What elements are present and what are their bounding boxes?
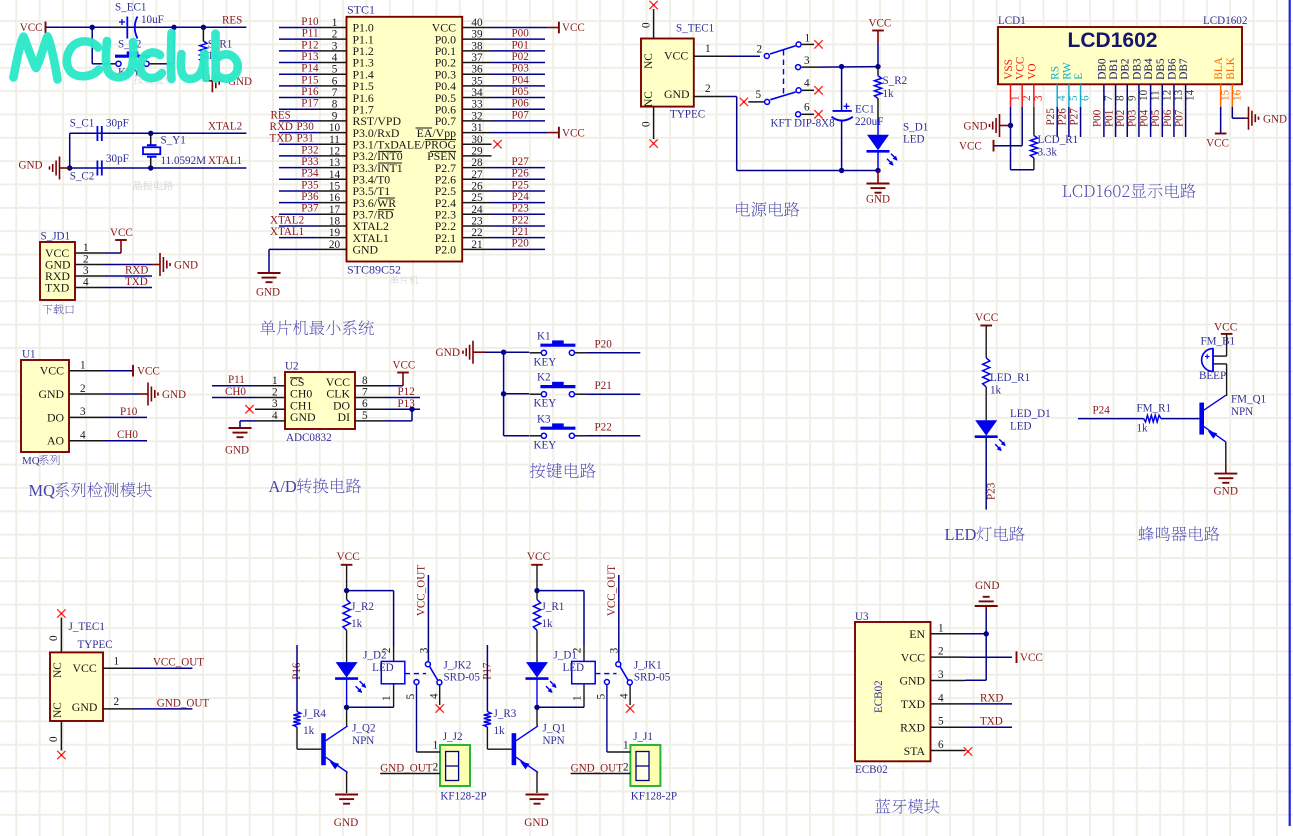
svg-text:VCC: VCC	[901, 650, 925, 664]
module U1 pin names	[38, 364, 64, 448]
IC U-STC1 pin 26 P2.5	[435, 180, 492, 198]
IC U-STC1 pin 14 P3.4/T0	[317, 169, 390, 187]
svg-text:15: 15	[1220, 89, 1232, 101]
wire+power VCC (mcu pin40)	[492, 22, 585, 35]
svg-text:VCC: VCC	[393, 360, 416, 372]
IC U-STC1 pin 6 P1.5	[317, 75, 374, 93]
svg-text:4: 4	[804, 78, 810, 90]
wire+net label P12	[279, 39, 319, 51]
IC U-STC1 pin 25 P2.4	[435, 192, 492, 210]
svg-text:P16: P16	[301, 86, 319, 98]
svg-text:J_D2: J_D2	[363, 650, 386, 662]
no-connect X (S_S1 pin5)	[740, 98, 748, 106]
relay switch J_JK2 SRD-05	[405, 565, 481, 752]
IC U-STC1 pin 32 P0.7	[435, 110, 492, 128]
svg-text:P04: P04	[512, 74, 530, 86]
svg-text:2: 2	[705, 83, 711, 95]
svg-text:12: 12	[329, 145, 340, 157]
section title LCD1602显示电路	[1062, 183, 1195, 198]
IC U3 pin 5 RXD	[900, 716, 965, 735]
svg-text:P30: P30	[297, 121, 315, 133]
wire S_TEC1 top stub + pin 0	[641, 9, 654, 39]
IC LCD1 pin 16 BLK	[1225, 56, 1244, 106]
wire+net label P14	[279, 63, 319, 75]
wire crystal left bus	[69, 133, 71, 168]
wire+net label P04 (mcu right)	[492, 74, 546, 86]
svg-text:29: 29	[471, 145, 483, 157]
svg-text:5: 5	[405, 693, 417, 699]
wire keys common bus	[485, 350, 529, 436]
svg-text:13: 13	[329, 157, 341, 169]
svg-text:FM_Q1: FM_Q1	[1231, 394, 1266, 406]
wire+net label P01 (lcd)	[1103, 107, 1115, 137]
wire J_TEC1 bottom stub + pin 0	[48, 721, 61, 751]
LED S_D1	[867, 120, 929, 170]
wire+power VCC (U1 pin1)	[105, 365, 160, 378]
wire+net label CH0 (U1 pin4)	[105, 429, 148, 441]
svg-text:TYPEC: TYPEC	[78, 639, 113, 651]
resistor J_R4 1k (base)	[291, 645, 326, 749]
capacitor S_C2 30pF	[70, 153, 129, 183]
svg-text:LED: LED	[563, 662, 585, 674]
wire S_TEC1 bottom stub + pin 0	[641, 107, 654, 139]
svg-text:LED: LED	[903, 134, 925, 146]
svg-text:25: 25	[471, 192, 483, 204]
net label XTAL1	[208, 155, 242, 167]
svg-text:P37: P37	[301, 203, 319, 215]
svg-text:K1: K1	[537, 330, 551, 342]
svg-text:P05: P05	[1150, 109, 1162, 127]
svg-text:GND: GND	[38, 387, 64, 401]
connector S_JD1 pin 2 GND	[45, 254, 105, 272]
svg-text:1k: 1k	[303, 725, 315, 737]
IC U2 pin 5 line (right)	[355, 410, 385, 422]
IC LCD1 pin 1 VSS	[1003, 59, 1022, 107]
svg-text:4: 4	[272, 410, 278, 422]
svg-text:P25: P25	[512, 179, 530, 191]
svg-text:ECB02: ECB02	[855, 764, 888, 776]
connector J_TEC1 pin names	[52, 661, 98, 718]
IC U-STC1 pin 27 P2.6	[435, 169, 492, 187]
svg-text:11: 11	[329, 134, 340, 146]
svg-text:NC: NC	[643, 91, 655, 107]
push button S_S2 KEY (reset)	[104, 39, 161, 79]
IC LCD1 pin 8 DB1	[1108, 58, 1127, 106]
svg-text:P17: P17	[301, 98, 319, 110]
section title MQ系列检测模块	[29, 481, 152, 500]
svg-text:4: 4	[80, 430, 86, 442]
svg-text:DO: DO	[47, 410, 65, 424]
svg-text:GND: GND	[72, 700, 98, 714]
svg-text:STA: STA	[904, 744, 926, 758]
svg-text:3: 3	[332, 40, 338, 52]
wire+net label P22 (K3)	[586, 422, 640, 436]
svg-text:1k: 1k	[990, 385, 1002, 397]
svg-text:GND: GND	[664, 87, 690, 101]
svg-text:9: 9	[332, 110, 338, 122]
IC LCD1 pin 5 RW	[1061, 62, 1080, 107]
wire+power VCC (S_JD1 pin1)	[105, 227, 133, 253]
LED J_D1 labels	[554, 650, 585, 675]
IC LCD1 title LCD1602	[1068, 29, 1158, 52]
connector J_TEC1 body	[50, 652, 103, 721]
svg-text:0: 0	[641, 121, 653, 127]
designator FM_B1	[1201, 336, 1236, 348]
svg-text:P20: P20	[595, 339, 613, 351]
svg-text:NC: NC	[52, 662, 64, 678]
svg-text:LED: LED	[1010, 421, 1032, 433]
LED LED_D1	[975, 387, 1051, 451]
svg-text:GND: GND	[436, 347, 460, 359]
svg-text:2: 2	[114, 696, 120, 708]
IC U-STC1 pin 40 VCC	[432, 17, 492, 35]
svg-text:XTAL2: XTAL2	[208, 121, 242, 133]
svg-text:21: 21	[471, 239, 482, 251]
wire reset button branch	[92, 27, 174, 64]
resistor LED_R1 1k	[983, 358, 1030, 397]
ground GND (bluetooth, inverted)	[975, 580, 1000, 610]
no-connect X (S_S1 pin4)	[814, 86, 822, 94]
svg-text:0: 0	[48, 635, 60, 641]
wire+net label P03 (lcd)	[1127, 107, 1139, 137]
text 按键复位 (gray)	[134, 75, 175, 85]
wire+net label P05 (mcu right)	[492, 86, 546, 98]
svg-text:4: 4	[332, 52, 338, 64]
svg-text:8: 8	[332, 99, 338, 111]
svg-text:VCC_OUT: VCC_OUT	[153, 657, 204, 669]
svg-text:J_JK2: J_JK2	[444, 660, 472, 672]
svg-text:KF128-2P: KF128-2P	[440, 791, 486, 803]
wire bluetooth EN/GND net	[966, 610, 989, 680]
svg-text:P15: P15	[301, 74, 319, 86]
svg-text:GND: GND	[162, 389, 186, 401]
wire+net label P23 (led)	[985, 437, 997, 509]
svg-text:P03: P03	[1127, 109, 1139, 127]
svg-text:1: 1	[114, 656, 120, 668]
svg-text:S_C2: S_C2	[70, 171, 95, 183]
logo MCUclub (teal)	[14, 33, 238, 80]
svg-text:P24: P24	[512, 191, 530, 203]
svg-text:2: 2	[332, 29, 338, 41]
wire+ground GND (U2 pin4)	[225, 421, 255, 457]
connector S_JD1 pin 3 RXD	[45, 265, 105, 283]
svg-text:35: 35	[471, 75, 483, 87]
IC U2 pin 4 line (left)	[255, 410, 285, 422]
svg-text:GND_OUT: GND_OUT	[157, 697, 210, 709]
svg-text:10: 10	[329, 122, 341, 134]
svg-text:VCC_OUT: VCC_OUT	[416, 565, 428, 616]
svg-text:5: 5	[332, 64, 338, 76]
svg-text:1: 1	[623, 740, 629, 752]
wire+net label P12 (U2 pin7)	[385, 386, 420, 398]
net label RES	[222, 15, 242, 27]
push button K3 KEY	[529, 413, 586, 451]
wire+net label P22 (mcu right)	[492, 214, 546, 226]
svg-text:5: 5	[1068, 95, 1080, 101]
svg-text:MQ: MQ	[29, 481, 56, 500]
svg-text:RES: RES	[222, 15, 242, 27]
wire+net label P06 (mcu right)	[492, 98, 546, 110]
resistor J_R3 1k (base)	[481, 645, 516, 749]
svg-text:KEY: KEY	[534, 439, 557, 451]
svg-text:DB3: DB3	[1131, 58, 1143, 80]
svg-text:8: 8	[362, 375, 368, 387]
svg-text:3: 3	[272, 398, 278, 410]
svg-text:TXD: TXD	[125, 276, 148, 288]
svg-text:P36: P36	[301, 191, 319, 203]
svg-text:P24: P24	[1093, 405, 1111, 417]
svg-text:RXD: RXD	[980, 692, 1003, 704]
svg-text:1: 1	[571, 695, 583, 701]
IC U3 pin 1 EN	[909, 622, 965, 641]
IC U-STC1 body STC89C52	[347, 17, 463, 262]
svg-text:P20: P20	[512, 238, 530, 250]
svg-text:BLK: BLK	[1225, 56, 1237, 79]
svg-text:14: 14	[329, 169, 341, 181]
svg-text:KEY: KEY	[534, 398, 557, 410]
wire S_S1 pin3 to VCC node	[819, 64, 880, 69]
wire+net label GND_OUT (J_TEC1 pin2)	[103, 696, 209, 709]
svg-text:LCD_R1: LCD_R1	[1038, 134, 1079, 146]
wire relay 1 cathode node	[534, 679, 584, 710]
LED J_D1	[526, 662, 557, 693]
IC U-STC1 pin 33 P0.6	[435, 99, 492, 117]
svg-text:P06: P06	[1162, 109, 1174, 127]
wire+net label P06 (lcd)	[1162, 107, 1174, 137]
IC U-STC1 pin 19 XTAL1	[317, 227, 389, 245]
IC LCD1 pin 11 DB4	[1143, 58, 1162, 107]
svg-text:S_D1: S_D1	[903, 122, 928, 134]
wire+net label P21 (K2)	[586, 380, 640, 394]
svg-text:1: 1	[272, 375, 278, 387]
svg-text:20: 20	[329, 239, 341, 251]
power port VCC (relay 1)	[527, 551, 550, 591]
svg-text:40: 40	[471, 17, 483, 29]
wire+net label RXD (S_JD1 pin3)	[105, 265, 153, 277]
transistor J_Q2 NPN	[321, 707, 375, 793]
IC U-STC1 pin 9 RST/VPD	[317, 110, 401, 128]
net label P24 (buzzer)	[1093, 405, 1111, 417]
IC U-STC1 pin 4 P1.3	[317, 52, 374, 70]
svg-text:P23: P23	[512, 203, 530, 215]
svg-text:4: 4	[1056, 95, 1068, 101]
section title 蜂鸣器电路	[1139, 526, 1220, 541]
svg-text:VCC: VCC	[1206, 138, 1229, 150]
IC U2 pin 6 line (right)	[355, 398, 385, 410]
svg-text:P02: P02	[512, 51, 529, 63]
svg-text:K2: K2	[537, 372, 551, 384]
IC U-STC1 pin 12 P3.2/INT0	[317, 145, 403, 163]
svg-text:P23: P23	[985, 482, 997, 500]
wire+net label P07 (mcu right)	[492, 109, 546, 121]
transistor FM_Q1 NPN	[1199, 394, 1266, 442]
module U1 pin 1 line	[69, 360, 105, 372]
svg-text:RXD: RXD	[125, 265, 148, 277]
relay coil J_JK2 pins 2/1	[381, 648, 405, 708]
svg-text:5: 5	[756, 89, 762, 101]
designator J_TEC1	[69, 621, 105, 633]
IC U3 pin 3 GND	[899, 669, 965, 688]
wire+net label TXD (S_JD1 pin4)	[105, 276, 153, 288]
IC U2 pin 2 line (left)	[255, 387, 285, 399]
svg-text:VCC: VCC	[959, 141, 982, 153]
svg-text:LED_R1: LED_R1	[990, 372, 1030, 384]
IC U-STC1 pin 10 P3.0/RxD	[317, 122, 400, 140]
svg-text:27: 27	[471, 169, 483, 181]
wire+net label P23 (mcu right)	[492, 203, 546, 215]
designator U1	[22, 349, 36, 361]
svg-text:XTAL1: XTAL1	[208, 155, 242, 167]
ground GND (crystal)	[18, 157, 69, 180]
wire relay 1 VCC node	[534, 588, 584, 662]
svg-text:P05: P05	[512, 86, 530, 98]
wire relay 2 cathode node	[344, 679, 394, 710]
svg-text:39: 39	[471, 29, 483, 41]
svg-text:DB5: DB5	[1155, 58, 1167, 80]
transistor J_Q1 NPN	[512, 707, 566, 793]
svg-text:DB4: DB4	[1143, 58, 1155, 80]
svg-text:RS: RS	[1050, 66, 1062, 80]
wire+net label RXD P30	[270, 121, 318, 133]
wire+net label P26 (mcu right)	[492, 168, 546, 180]
svg-text:DB1: DB1	[1108, 58, 1120, 79]
svg-text:P01: P01	[512, 39, 529, 51]
wire+net label P00 (lcd)	[1092, 107, 1104, 137]
svg-text:VSS: VSS	[1003, 59, 1015, 80]
designator U3	[855, 611, 869, 623]
wire+net label P27 (mcu right)	[492, 156, 546, 168]
connector S_TEC1 body TYPEC	[641, 39, 694, 107]
svg-text:2: 2	[757, 44, 763, 56]
svg-text:P27: P27	[512, 156, 530, 168]
relay switch J_JK1 SRD-05	[595, 565, 671, 752]
wire+net label P21 (mcu right)	[492, 226, 546, 238]
svg-text:P12: P12	[301, 39, 318, 51]
svg-text:GND: GND	[866, 194, 890, 206]
svg-text:J_Q1: J_Q1	[543, 723, 566, 735]
svg-text:SRD-05: SRD-05	[634, 672, 671, 684]
svg-text:30pF: 30pF	[106, 118, 129, 130]
svg-text:P35: P35	[301, 179, 319, 191]
svg-text:NPN: NPN	[1231, 406, 1253, 418]
wire+net label RXD (U3 pin4)	[966, 692, 1013, 704]
wire GND (mcu pin20)	[269, 249, 317, 273]
svg-text:2: 2	[1021, 95, 1033, 101]
svg-text:RES: RES	[271, 109, 291, 121]
wire+net label P11	[279, 28, 319, 40]
svg-text:1: 1	[433, 740, 439, 752]
svg-text:P27: P27	[1068, 108, 1080, 126]
svg-text:SRD-05: SRD-05	[444, 672, 481, 684]
svg-text:FM_R1: FM_R1	[1137, 403, 1172, 415]
svg-text:1k: 1k	[351, 618, 363, 630]
svg-text:P26: P26	[512, 168, 530, 180]
part label LCD1602 (top right)	[1203, 15, 1247, 27]
svg-text:RW: RW	[1061, 62, 1073, 80]
IC U-STC1 pin 38 P0.1	[435, 40, 492, 58]
svg-text:P34: P34	[301, 168, 319, 180]
IC U-STC1 pin 8 P1.7	[317, 99, 374, 117]
svg-text:P10: P10	[301, 16, 319, 28]
IC U-STC1 pin 30 ALE/PROG	[398, 134, 491, 152]
svg-text:P21: P21	[512, 226, 529, 238]
wire lcd pin1 VSS to GND node	[1008, 107, 1013, 170]
svg-text:P07: P07	[1173, 109, 1185, 127]
svg-text:P00: P00	[512, 28, 530, 40]
wire+net label P37	[279, 203, 319, 215]
no-connect X (U2 pin3)	[245, 405, 253, 413]
section title A/D转换电路	[269, 477, 362, 496]
IC LCD1 pin 7 DB0	[1096, 58, 1115, 107]
power port VCC (reset)	[20, 22, 46, 35]
svg-text:MQ: MQ	[22, 455, 40, 467]
power port VCC (power circuit)	[869, 18, 892, 67]
wire+net label P05 (lcd)	[1150, 107, 1162, 137]
svg-text:4: 4	[619, 693, 631, 699]
svg-text:16: 16	[1231, 89, 1243, 101]
svg-text:STC89C52: STC89C52	[347, 263, 401, 277]
svg-text:DB0: DB0	[1096, 58, 1108, 80]
IC U-STC1 pin 13 P3.3/INT1	[317, 157, 403, 175]
wire+net label P00 (mcu right)	[492, 28, 546, 40]
svg-text:DB6: DB6	[1166, 58, 1178, 80]
svg-text:XTAL2: XTAL2	[270, 214, 304, 226]
crystal S_Y1 11.0592M	[143, 133, 206, 168]
svg-text:TXD: TXD	[270, 133, 293, 145]
terminal block J_J2 KF128-2P	[380, 731, 486, 803]
module U1 pin 2 line	[69, 383, 105, 395]
LED J_D2	[335, 662, 366, 693]
IC U-STC1 pin 29 PSEN	[427, 145, 491, 163]
svg-text:26: 26	[471, 180, 483, 192]
svg-text:ADC0832: ADC0832	[286, 432, 332, 444]
svg-text:8: 8	[1115, 95, 1127, 101]
svg-text:1k: 1k	[883, 88, 895, 100]
svg-text:P01: P01	[1103, 110, 1115, 127]
svg-text:P00: P00	[1092, 109, 1104, 127]
push button K1 KEY	[529, 330, 586, 368]
svg-text:J_R2: J_R2	[351, 601, 374, 613]
connector S_JD1 pin 4 TXD	[45, 277, 105, 295]
svg-text:VCC: VCC	[1214, 322, 1237, 334]
svg-text:1: 1	[805, 33, 811, 45]
wire+net label P26 (lcd)	[1057, 107, 1069, 137]
wire reset net RES (top-left horizontal)	[46, 25, 247, 30]
wire+net label P24 (mcu right)	[492, 191, 546, 203]
IC U2 pin 3 line (left)	[255, 398, 285, 410]
svg-text:VCC: VCC	[337, 551, 360, 563]
no-connect X (U3 pin6 STA)	[964, 747, 972, 755]
svg-text:P2.0: P2.0	[435, 243, 456, 257]
svg-text:S_Y1: S_Y1	[161, 135, 186, 147]
wire+net label P20 (K1)	[586, 339, 640, 353]
wire+net label TXD P31	[270, 133, 318, 145]
svg-text:14: 14	[1185, 89, 1197, 101]
svg-text:1k: 1k	[1137, 423, 1149, 435]
IC U2 pin 7 line (right)	[355, 387, 385, 399]
svg-text:GND: GND	[1263, 114, 1287, 126]
capacitor S_EC1 10uF	[113, 2, 164, 39]
wire+net label P15	[279, 74, 319, 86]
wire+power VCC (lcd pin15)	[1206, 107, 1229, 150]
IC U-STC1 pin 1 P1.0	[317, 17, 374, 35]
IC LCD1 pin 14 DB7	[1178, 58, 1197, 107]
label BEEP	[1199, 370, 1226, 382]
wire+net label RES	[271, 109, 318, 121]
wire+net label P02 (mcu right)	[492, 51, 546, 63]
svg-text:6: 6	[1080, 95, 1092, 101]
svg-text:1k: 1k	[494, 725, 506, 737]
